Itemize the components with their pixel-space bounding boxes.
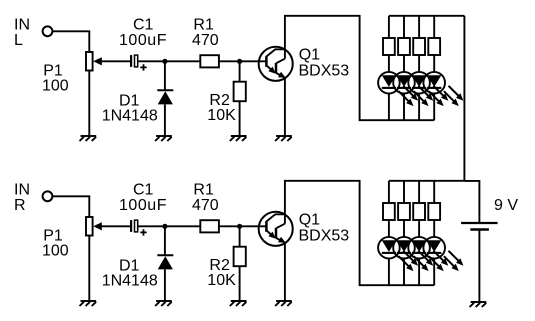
svg-text:R: R [14,197,26,214]
svg-text:9 V: 9 V [494,197,518,214]
svg-text:L: L [14,32,23,49]
